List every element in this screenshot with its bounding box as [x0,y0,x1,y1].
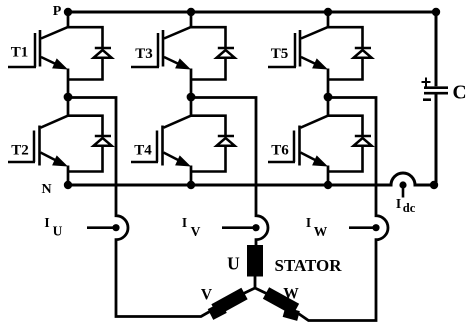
wire T5 emitter lead [327,69,330,98]
node N junction dot 3 [324,181,332,189]
diode D2 [94,136,112,146]
svg-text:T3: T3 [135,46,153,62]
svg-text:W: W [283,286,299,303]
wire T2 collector stub [67,97,70,116]
wire T6 gate lead [268,161,295,164]
transistor T3 [158,27,192,70]
label capacitor plus [422,78,431,87]
node P junction dot 2 [187,8,195,16]
node P junction dot 3 [324,8,332,16]
wire P bus [68,11,436,14]
wire T1 gate lead [8,66,36,69]
wire diode D2 branch [68,116,103,172]
wire diode D3 branch [191,27,226,79]
svg-text:U: U [53,224,63,239]
wire T2 gate lead [8,161,35,164]
node phase midpoint dot 2 [187,93,196,102]
wire T3 collector stub [190,12,193,28]
node P junction dot 1 [64,8,72,16]
wire T3 gate lead [131,66,159,69]
wire stator neutral stem [244,277,267,294]
node N junction dot 1 [64,181,72,189]
wire T2 emitter lead [67,166,70,186]
wire T4 gate lead [131,161,158,164]
wire phase W output [294,98,388,321]
svg-text:T2: T2 [11,143,29,159]
label capacitor minus [423,98,431,101]
node phase midpoint dot 3 [324,93,333,102]
wire N bus with Idc detour [68,173,434,185]
current sensor IU dot [112,224,119,231]
transistor T1 [35,27,69,70]
transistor T5 [295,27,329,70]
wire phase V output [191,98,268,247]
diode D3 [217,48,235,58]
wire diode D6 branch [328,116,363,172]
wire diode D4 branch [191,116,226,172]
svg-text:I: I [44,215,49,230]
wire diode D5 branch [328,27,363,79]
svg-text:T4: T4 [134,143,152,159]
svg-text:V: V [191,224,201,239]
wire diode D1 branch [68,27,103,79]
wire T6 collector stub [327,97,330,116]
svg-text:I: I [396,196,401,211]
transistor T6 [294,115,329,166]
svg-text:T5: T5 [271,46,289,62]
svg-text:STATOR: STATOR [275,256,343,275]
current sensor IV dot [252,224,259,231]
capacitor C [424,88,448,94]
wire T3 emitter lead [190,69,193,98]
current sensor Idc dot [399,181,406,188]
wire T4 collector stub [190,97,193,116]
current sensor IW dot [372,224,379,231]
wire Idc probe stub [402,185,405,198]
wire T4 emitter lead [190,166,193,186]
node N junction dot 4 [430,181,438,189]
node N junction dot 2 [187,181,195,189]
diode D6 [354,136,372,146]
svg-text:W: W [314,224,328,239]
svg-text:dc: dc [403,201,416,215]
diode D5 [354,48,372,58]
wire T1 collector stub [67,12,70,28]
node P junction dot 4 [432,8,440,16]
svg-text:N: N [41,182,51,197]
svg-text:C: C [452,83,466,104]
svg-text:U: U [227,254,240,274]
transistor T2 [34,115,69,166]
wire capacitor branch top [435,12,438,86]
svg-text:P: P [53,4,62,19]
node phase midpoint dot 1 [64,93,73,102]
stator winding W coil [266,293,299,316]
stator winding V coil [211,294,245,315]
svg-text:V: V [201,287,213,304]
diode D1 [94,48,112,58]
svg-text:T6: T6 [271,143,289,159]
wire IU probe [87,226,116,229]
wire IV probe [222,226,256,229]
stator winding U coil [247,245,263,277]
wire T6 emitter lead [327,166,330,186]
svg-text:I: I [306,215,311,230]
wire IW probe [349,226,376,229]
wire T5 gate lead [268,66,296,69]
wire T5 collector stub [327,12,330,28]
wire phase U output [68,98,215,317]
diode D4 [217,136,235,146]
wire capacitor branch bottom [435,95,438,186]
svg-text:T1: T1 [11,45,29,61]
wire T1 emitter lead [67,69,70,98]
transistor T4 [157,115,192,166]
svg-text:I: I [182,215,187,230]
